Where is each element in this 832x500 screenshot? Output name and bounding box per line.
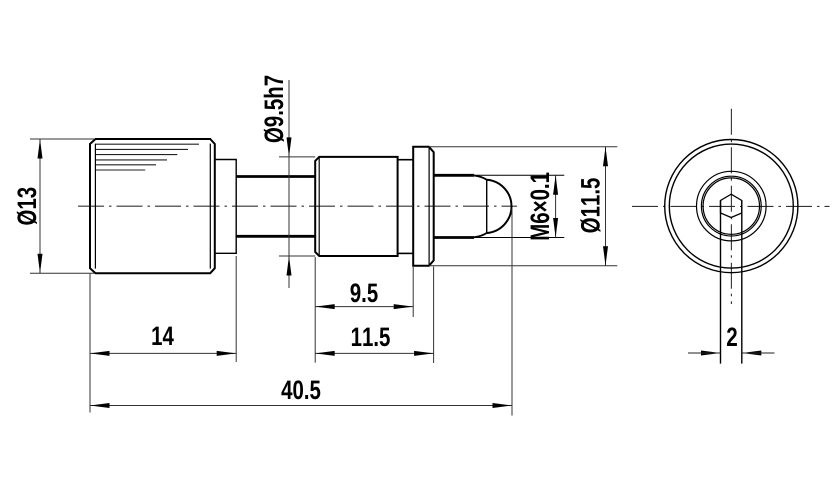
arrows Ø11.5: [603, 147, 608, 167]
head chamfer line right: [209, 144, 211, 269]
dimension lines Ø9.5h7: [279, 156, 315, 158]
collar section after head: [215, 160, 236, 254]
arrows 40.5: [90, 403, 110, 408]
dimension lines 11.5: [433, 267, 435, 364]
arrows 11.5: [315, 351, 335, 356]
side view of part: [78, 139, 564, 273]
end view of part: [632, 109, 830, 364]
arrows 9.5: [315, 304, 335, 309]
end view vertical centerline: [730, 109, 732, 304]
dimension lines 2: [688, 352, 775, 354]
circle thread root: [701, 176, 761, 236]
circle thread crest: [697, 171, 767, 241]
label 11.5: [352, 328, 390, 347]
label Ø13: [17, 188, 37, 225]
arrows 2: [701, 351, 721, 356]
circle dome chord: [703, 178, 759, 234]
flange Ø11.5: [413, 147, 434, 266]
arrows M6×0.1: [553, 175, 558, 195]
dimension lines Ø11.5: [429, 146, 617, 148]
dimension line M6×0.1: [555, 175, 557, 237]
slot edge lines (2 wide): [720, 201, 722, 364]
dimension and extension lines: [30, 80, 617, 416]
arrows Ø13: [38, 139, 43, 159]
dome tip arc: [474, 176, 487, 180]
thread M6 major diameter lines: [434, 174, 474, 177]
dimension lines 40.5: [511, 209, 513, 416]
arrows 14: [90, 351, 110, 356]
neck relief groove lines: [236, 175, 315, 178]
label 40.5: [281, 380, 320, 399]
end view horizontal centerline: [632, 205, 830, 207]
neck between cylinder and flange: [398, 159, 414, 161]
head chamfer line left: [94, 144, 96, 269]
label 9.5: [351, 283, 378, 302]
arrows Ø9.5h7: [287, 137, 292, 157]
knurled head outline (Ø13): [90, 139, 215, 273]
label 2: [727, 327, 737, 346]
label M6×0.1: [530, 173, 549, 240]
arrowheads: [38, 137, 762, 408]
dimension lines 9.5: [314, 257, 316, 363]
dome chord line: [486, 180, 488, 233]
centerline of side view: [78, 205, 517, 207]
label Ø11.5: [580, 178, 600, 232]
circle flange Ø11.5: [669, 144, 793, 268]
dimension lines 14: [89, 274, 91, 413]
dimension lines Ø13: [30, 138, 94, 140]
ground cylinder Ø9.5h7: [315, 157, 397, 256]
label 14: [152, 327, 173, 345]
wire labels: [17, 76, 737, 400]
hex socket: [721, 194, 742, 217]
label Ø9.5h7: [264, 76, 284, 142]
outer circle head Ø13: [665, 140, 798, 273]
knurl marking lines: [96, 144, 199, 170]
